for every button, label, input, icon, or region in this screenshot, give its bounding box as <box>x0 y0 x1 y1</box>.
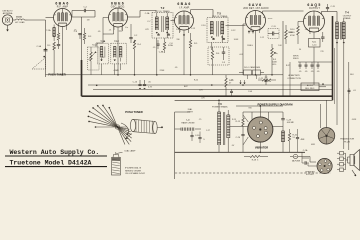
svg-text:100K: 100K <box>234 39 239 41</box>
svg-text:C-8A: C-8A <box>159 51 164 54</box>
junction dots on buses <box>62 74 284 107</box>
svg-text:VIBRATOR: VIBRATOR <box>255 146 268 150</box>
svg-text:T-4: T-4 <box>345 11 349 15</box>
capacitor C-28 buffer <box>281 112 294 126</box>
T-3 trimmer capacitors <box>201 25 236 40</box>
capacitor C-30 <box>190 132 200 142</box>
tube V3 6BA6 IF <box>175 11 194 30</box>
wire speaker field drop <box>289 62 291 96</box>
T-5 secondary winding <box>227 110 248 152</box>
wire wave trap taps <box>91 43 103 75</box>
T-3 primary winding <box>210 22 213 39</box>
label DC56 lead-in <box>15 17 25 25</box>
svg-text:POWER TRANS.: POWER TRANS. <box>212 106 228 109</box>
capacitor C-9 <box>222 47 226 64</box>
svg-text:.0001: .0001 <box>267 18 273 20</box>
arrow bottom right <box>352 170 356 176</box>
capacitor C-29 <box>296 129 305 146</box>
svg-text:IF A NEW DIAL IS: IF A NEW DIAL IS <box>125 167 142 170</box>
resistor R-5 cathode <box>189 33 198 75</box>
T-4 core <box>339 22 342 40</box>
scattered value labels <box>98 12 291 92</box>
wire V4 diode plates <box>243 24 254 75</box>
power supply left rail <box>175 112 190 179</box>
title rule lower <box>5 166 107 168</box>
wire AVC bus <box>46 74 284 76</box>
svg-text:6A FUSE: 6A FUSE <box>292 160 301 163</box>
T-5 core <box>223 112 224 145</box>
wire T-3 to V4 grid <box>212 26 246 51</box>
chassis thick vertical left <box>81 60 83 96</box>
svg-text:R.F. AMP: R.F. AMP <box>57 6 69 9</box>
resistor R-6 <box>211 47 220 75</box>
svg-text:TRANSISTOR: TRANSISTOR <box>340 138 354 141</box>
resistor R-4 osc grid <box>133 40 141 75</box>
speaker <box>348 150 360 171</box>
svg-text:1M: 1M <box>87 20 90 22</box>
wire antenna lead down <box>7 25 9 31</box>
label V5 6AQ5 OUTPUT <box>307 3 321 10</box>
svg-text:C-1A: C-1A <box>36 45 41 48</box>
wire audio feed vertical <box>283 21 299 96</box>
svg-text:NEEDED ORDER: NEEDED ORDER <box>125 170 142 172</box>
svg-text:HASH CHOKE: HASH CHOKE <box>181 121 195 124</box>
resistor R-13 bus <box>225 75 234 96</box>
svg-text:CELLOPHANE D4142: CELLOPHANE D4142 <box>125 172 146 175</box>
T-2 core <box>162 16 163 32</box>
svg-text:DIAL LAMP: DIAL LAMP <box>125 149 136 152</box>
IF transformer T-2 box <box>152 13 173 39</box>
dashed cable run <box>175 172 331 174</box>
svg-text:GRN: GRN <box>352 119 357 121</box>
connector plug circle <box>318 128 335 145</box>
resistor R-11 cathode box and C-14 <box>309 32 325 85</box>
svg-text:Truetone Model D4142A: Truetone Model D4142A <box>10 159 92 166</box>
svg-text:T-3: T-3 <box>217 11 221 15</box>
wire speaker socket left <box>308 164 317 167</box>
wire V2 pins down <box>103 18 122 75</box>
T-4 primary winding <box>336 22 339 45</box>
T-2 secondary winding <box>166 13 169 39</box>
svg-text:DC56: DC56 <box>16 17 22 19</box>
svg-text:.008 MF: .008 MF <box>287 122 295 124</box>
capacitor C-17 on bus <box>143 80 152 90</box>
capacitor C-31 <box>198 132 205 144</box>
svg-text:FIELD: FIELD <box>293 58 299 60</box>
resistor R-8 grid leak <box>285 25 296 44</box>
svg-text:2ND DET. 1ST AUDIO: 2ND DET. 1ST AUDIO <box>243 7 269 10</box>
vibrator top wires <box>236 106 283 120</box>
choke L-5 <box>175 120 201 131</box>
T-2 secondary filter parts <box>156 38 173 54</box>
svg-text:A.T. LEAD: A.T. LEAD <box>15 21 25 24</box>
svg-text:Western Auto Supply Co.: Western Auto Supply Co. <box>10 149 100 156</box>
svg-text:CONNECTION: CONNECTION <box>287 78 301 80</box>
svg-text:TRANS.: TRANS. <box>343 17 351 20</box>
svg-text:T-1A: T-1A <box>46 29 51 32</box>
svg-text:.05MF: .05MF <box>113 70 119 72</box>
resistor R-3 screen <box>83 28 92 44</box>
capacitor C-1A spark plate <box>302 149 309 165</box>
capacitor C-4 coupling <box>83 7 95 13</box>
svg-text:SEL. REC.: SEL. REC. <box>305 88 315 90</box>
svg-text:BLK: BLK <box>350 74 354 76</box>
wire V4 plate to V5 <box>256 11 304 75</box>
svg-text:T-2: T-2 <box>161 6 165 10</box>
label connector plug <box>340 138 354 144</box>
label T-4 OUTPUT TRANS <box>343 11 352 21</box>
svg-text:T-1B: T-1B <box>100 41 105 43</box>
wire T-2 secondary to V3 grid <box>157 21 175 75</box>
svg-text:6.3V: 6.3V <box>148 87 153 89</box>
chassis ground thick bus <box>82 95 333 97</box>
label T-2 1ST I.F. TRANS <box>155 6 171 13</box>
wire V2 plate to T-2 <box>128 11 157 32</box>
svg-text:I.F. AMP.: I.F. AMP. <box>179 6 190 9</box>
svg-text:PLUG: PLUG <box>344 142 350 144</box>
wire V1 grid <box>28 18 54 46</box>
heater pin drops <box>114 27 310 35</box>
wire V1 cathode down <box>59 27 67 75</box>
T-5 primary winding <box>218 100 221 152</box>
AVC filter box <box>208 47 229 65</box>
resistor R-16 <box>288 129 297 146</box>
wire antenna to receptacle <box>13 19 28 20</box>
svg-text:ANTENNA: ANTENNA <box>3 12 13 15</box>
svg-text:LIGHT: LIGHT <box>187 111 194 113</box>
tube V5 6AQ5 <box>304 11 325 32</box>
svg-text:R-14 CANDOHM: R-14 CANDOHM <box>244 66 260 69</box>
capacitor C-16 on bus <box>133 80 142 90</box>
speaker plug circle <box>317 158 332 173</box>
oscillator coil T-1B box <box>97 41 108 75</box>
label dial light lead <box>187 108 194 114</box>
T-4 secondary winding <box>342 18 345 45</box>
svg-text:470K: 470K <box>290 35 295 37</box>
wire heater bus <box>93 88 333 90</box>
svg-text:220K: 220K <box>160 70 165 72</box>
diode arrows mid <box>240 80 246 84</box>
svg-text:OUTPUT: OUTPUT <box>309 7 320 10</box>
wire screen supply column <box>72 11 82 61</box>
svg-text:SPEAKER: SPEAKER <box>305 171 315 174</box>
label speaker socket <box>305 171 315 177</box>
svg-text:'A' BATTERY: 'A' BATTERY <box>288 74 300 77</box>
resistor R-2 cathode <box>53 33 60 44</box>
T-3 core <box>217 21 218 37</box>
svg-text:C-5A: C-5A <box>145 12 150 15</box>
tube V4 6AV6 <box>246 11 266 31</box>
vibrator circle <box>248 117 273 142</box>
svg-text:VOL.: VOL. <box>272 64 277 66</box>
wire V3 plate top to T-3 <box>191 10 213 18</box>
svg-text:OSC. MOD.: OSC. MOD. <box>111 6 126 9</box>
misc value labels scatter <box>74 18 357 147</box>
vibrator left components <box>236 112 249 152</box>
padder capacitor C-2 <box>129 31 138 43</box>
label A battery connection <box>287 74 301 80</box>
resistor R-14 candohm <box>239 66 264 79</box>
fuse <box>290 154 304 162</box>
resistor R-10 grid <box>288 26 300 44</box>
power supply bottom bus <box>175 142 305 154</box>
label V4 6AV6 2ND DET <box>243 3 269 10</box>
paper background <box>0 0 360 185</box>
resistor R-20 avc line <box>258 77 276 81</box>
wire lower distribution bus <box>175 99 333 101</box>
T-2 primary winding <box>155 13 158 34</box>
resistor R-18 horizontal <box>244 155 268 161</box>
svg-text:2ND I.F. TRANS.: 2ND I.F. TRANS. <box>212 15 228 18</box>
svg-text:SW: SW <box>248 108 251 110</box>
selenium rectifier box <box>301 83 326 91</box>
label T-5 POWER TRANS <box>212 102 228 109</box>
wave trap box <box>88 44 106 71</box>
antenna label <box>2 9 13 15</box>
tone capacitor C-15 <box>326 4 336 12</box>
tuning capacitor C-1A <box>36 45 47 60</box>
capacitor C-6 screen bypass <box>74 31 82 39</box>
buffer capacitors row <box>298 62 333 73</box>
coupling capacitor C-11 box <box>268 26 279 38</box>
tuning drum <box>130 119 163 133</box>
IF transformer T-3 box <box>207 18 228 43</box>
label DIAL LAMP <box>116 149 136 153</box>
hash coil L-6 <box>282 126 285 152</box>
svg-text:R-18 5: R-18 5 <box>252 160 259 162</box>
label V1 6BA6 R.F. AMP <box>55 1 69 8</box>
svg-text:C-1A: C-1A <box>303 149 308 152</box>
wire speaker leads vertical <box>321 45 349 150</box>
capacitor C-5 bypass <box>53 45 60 50</box>
chassis thick vertical right <box>332 16 334 100</box>
title rule upper <box>5 155 107 157</box>
label T-3 2ND I.F. TRANS <box>212 11 228 18</box>
svg-text:1MEG: 1MEG <box>247 45 253 47</box>
T-2 trimmer capacitors <box>147 21 180 35</box>
svg-text:6AV6: 6AV6 <box>249 3 263 7</box>
capacitor C-21 <box>259 75 268 85</box>
svg-text:SOCKET: SOCKET <box>306 174 315 176</box>
label V2 6BE6 CONV <box>111 1 126 8</box>
capacitor C-32 right edge <box>348 88 357 94</box>
svg-text:10MEG: 10MEG <box>288 32 295 34</box>
dial lamp assembly <box>112 152 121 175</box>
tube V1 6BA6 <box>54 9 72 27</box>
svg-text:R-1A: R-1A <box>92 44 97 47</box>
wire V1 plate to coupling <box>72 11 96 18</box>
coil T-1A secondary <box>46 25 55 42</box>
oscillator coil T-1C box <box>111 41 127 75</box>
drum pointer arrow <box>125 134 132 140</box>
antenna coil L-1 <box>2 15 12 25</box>
wire B+ bus <box>88 84 333 86</box>
svg-text:1ST I.F. TRANS.: 1ST I.F. TRANS. <box>155 10 171 13</box>
volume control R-9 <box>271 44 278 75</box>
svg-text:T-1C: T-1C <box>114 41 119 43</box>
plug pin squares <box>337 152 348 172</box>
svg-text:AVC: AVC <box>184 85 189 88</box>
wire power to plug <box>304 157 316 163</box>
svg-text:AC-DC: AC-DC <box>307 84 314 87</box>
T-3 secondary winding <box>221 22 224 43</box>
label PUSH TUNER <box>48 73 66 77</box>
svg-text:C-x: C-x <box>125 27 128 29</box>
dial cord spokes <box>88 105 132 145</box>
svg-text:PUSH TUNER: PUSH TUNER <box>125 110 143 114</box>
tube V2 6BE6 <box>109 8 128 27</box>
resistor R-1 AVC <box>47 42 55 75</box>
cellophane note text <box>125 167 146 176</box>
wire V3 cathode down <box>180 30 189 75</box>
wire V5 grid/plate <box>298 12 337 27</box>
wire vibrator to hash coil <box>273 126 283 128</box>
label V3 6BA6 I.F. AMP <box>177 2 191 9</box>
push tuner gang linkage <box>32 56 46 77</box>
capacitor C-19 <box>230 89 233 96</box>
